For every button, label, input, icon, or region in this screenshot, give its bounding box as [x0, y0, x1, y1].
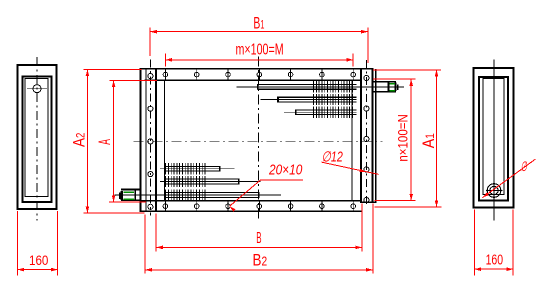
finned tube row 1 upper [237, 86, 357, 88]
leader line phi 12 [321, 162, 378, 174]
vertical centerline main view [257, 57, 259, 220]
right side view circle crosshair [486, 190, 503, 192]
svg-text:20×10: 20×10 [268, 163, 302, 179]
fins row 1 upper [313, 81, 315, 92]
dimension A2 [84, 69, 142, 71]
svg-text:160: 160 [29, 252, 49, 268]
svg-text:160: 160 [486, 253, 504, 269]
right side view middle frame [479, 77, 508, 201]
pipe connection top right [373, 81, 397, 83]
left side view outer frame [18, 65, 57, 209]
dimension B2 [144, 215, 146, 274]
right side view outer frame [474, 68, 514, 208]
finned tube row 1 lower [160, 168, 234, 170]
svg-text:∅: ∅ [521, 159, 528, 174]
right side view pipe circle inner [490, 186, 498, 194]
left side view inner frame [25, 78, 48, 196]
finned tube row 2 lower [160, 181, 261, 183]
left tubesheet line [155, 68, 157, 212]
finned tube row 3 lower [114, 194, 281, 196]
svg-text:∅12: ∅12 [322, 149, 343, 165]
right side view pipe circle outer [487, 184, 501, 198]
svg-text:m×100=M: m×100=M [236, 42, 284, 59]
dimension m x 100 = M [164, 54, 166, 67]
leader line phi right view [483, 159, 536, 197]
fins row 2 lower [165, 176, 167, 187]
fins row 3 lower [165, 189, 167, 200]
pipe nut green edges top right [389, 83, 395, 85]
finned tube row 2 upper [261, 99, 357, 101]
fins row 1 lower [165, 163, 167, 174]
bolt holes right column [365, 60, 367, 204]
right side view inner frame [483, 79, 504, 195]
dimension 160 left view [17, 211, 19, 276]
pipe connection bottom left [121, 189, 141, 191]
svg-text:A2: A2 [70, 132, 89, 147]
main box top flange inner line [145, 79, 362, 81]
svg-text:n×100=N: n×100=N [396, 114, 412, 161]
svg-text:A: A [95, 139, 114, 145]
right tubesheet inner line [351, 80, 353, 201]
left side view bolt hole crosshair [27, 88, 47, 90]
main box top edge [140, 68, 374, 70]
bolt holes bottom flange row [164, 201, 166, 210]
right flange bottom close line [360, 201, 377, 203]
dimension n x 100 = N [373, 78, 415, 80]
right side view centerline [493, 60, 495, 221]
dimension A1 [373, 69, 441, 71]
right tubesheet line [360, 68, 362, 203]
bolt holes left column [149, 60, 151, 216]
left wall outer line [140, 68, 142, 212]
fins row 2 upper [313, 94, 315, 105]
right wall outer line [375, 69, 377, 203]
finned tube row 3 upper [284, 111, 357, 113]
svg-text:A1: A1 [419, 133, 438, 148]
leader line 20x10 [261, 179, 303, 181]
svg-text:B1: B1 [253, 14, 264, 32]
dimension 160 right view [473, 210, 475, 276]
svg-text:B: B [256, 230, 261, 247]
fins row 3 upper [313, 107, 315, 118]
left wall second line [145, 68, 147, 212]
horizontal centerline main view [134, 140, 383, 142]
left side view bolt hole circle [33, 85, 41, 93]
right wall line [372, 68, 374, 203]
main box bottom flange top line [141, 200, 362, 202]
dimension A [110, 79, 158, 81]
dimension B1 [149, 28, 151, 56]
left side view middle frame [23, 76, 52, 202]
svg-text:B2: B2 [253, 252, 268, 270]
left side view centerline [36, 57, 38, 221]
pipe nut green edges bottom left [123, 191, 134, 193]
left tubesheet inner line [163, 80, 165, 201]
dimension B [155, 214, 157, 252]
main box bottom edge [140, 210, 363, 212]
bolt holes top flange row [164, 70, 166, 80]
